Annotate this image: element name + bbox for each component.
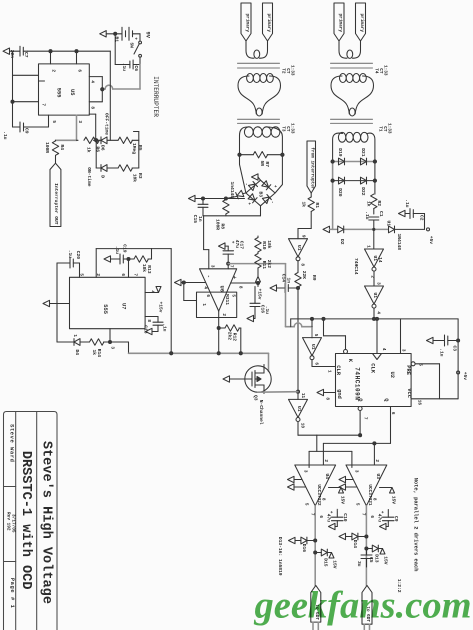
svg-text:3: 3 — [353, 470, 358, 473]
ground — [100, 31, 107, 37]
svg-text:UCC37321: UCC37321 — [367, 484, 372, 505]
svg-text:ON-time: ON-time — [86, 167, 92, 187]
svg-text:+: + — [328, 511, 333, 514]
svg-text:15V: 15V — [391, 496, 397, 505]
svg-text:B1: B1 — [114, 36, 120, 42]
inverter U1 pins 9/8 — [289, 229, 312, 267]
label T2 CT 1:33 — [280, 65, 294, 76]
svg-text:.1u: .1u — [264, 306, 270, 315]
svg-text:gnd: gnd — [336, 389, 342, 399]
svg-text:Vcc: Vcc — [406, 388, 412, 398]
ground C17 — [219, 243, 229, 249]
svg-text:C9: C9 — [393, 516, 399, 522]
svg-text:1: 1 — [365, 245, 370, 248]
resistor R12 — [219, 325, 241, 354]
wire U3 output to GDT — [365, 506, 367, 586]
transformer T4 primary loop — [339, 41, 361, 58]
svg-text:U5: U5 — [69, 89, 75, 95]
capacitor C18 — [142, 317, 167, 334]
svg-text:1:33: 1:33 — [386, 123, 391, 134]
svg-text:D4: D4 — [74, 349, 80, 355]
svg-text:+: + — [379, 511, 384, 514]
svg-text:C1: C1 — [378, 211, 384, 217]
ground Q3 gate — [223, 376, 245, 382]
svg-text:1: 1 — [201, 303, 206, 306]
ground pin4 — [175, 279, 206, 285]
wire CLK down — [376, 317, 379, 353]
svg-text:CLR: CLR — [335, 365, 341, 375]
svg-text:Rev 192: Rev 192 — [5, 512, 10, 531]
svg-text:T2: T2 — [280, 68, 285, 74]
wire T1 left rail — [332, 161, 334, 229]
svg-text:555: 555 — [56, 88, 62, 98]
resistor R5 — [118, 137, 143, 154]
wire left rail down — [95, 140, 97, 168]
svg-text:6: 6 — [313, 362, 318, 365]
svg-text:3: 3 — [375, 282, 380, 285]
svg-text:18k: 18k — [266, 240, 272, 249]
svg-text:.1u: .1u — [439, 348, 445, 357]
feedback box pin1/5/6 — [184, 283, 237, 318]
svg-text:C3: C3 — [452, 345, 458, 351]
flag to GDT right — [362, 585, 372, 624]
wire bottom rail — [330, 228, 389, 231]
svg-text:R7: R7 — [264, 161, 270, 167]
wire pin2rail to LM311 column — [152, 249, 172, 354]
driver U3 UCC37321 — [346, 459, 387, 518]
svg-text:primary: primary — [337, 14, 342, 33]
555 timer U5 — [39, 64, 95, 123]
svg-text:6: 6 — [318, 515, 323, 518]
svg-text:100R: 100R — [215, 219, 221, 230]
svg-text:Q3: Q3 — [253, 395, 259, 401]
label T4 CT 1:33 — [373, 65, 387, 76]
resistor R7 — [238, 152, 284, 168]
svg-text:22K: 22K — [301, 271, 307, 280]
wire J pin down — [400, 319, 402, 354]
svg-text:1k: 1k — [366, 201, 372, 207]
svg-text:T4: T4 — [373, 68, 378, 74]
ground at bridge top — [252, 174, 261, 180]
transformer T2 secondary blob — [238, 73, 281, 116]
diode D15 — [314, 549, 338, 569]
svg-text:CT: CT — [285, 126, 290, 132]
svg-text:N-Channel: N-Channel — [258, 400, 264, 425]
svg-text:C19: C19 — [122, 244, 128, 253]
svg-text:1n: 1n — [197, 216, 203, 222]
ground rail bottom — [323, 226, 330, 232]
svg-text:7: 7 — [132, 273, 137, 276]
svg-text:11: 11 — [300, 393, 305, 399]
svg-text:R2: R2 — [376, 200, 382, 206]
ground U3 inputs — [339, 476, 357, 490]
svg-text:Page # 1: Page # 1 — [9, 578, 15, 609]
svg-text:6: 6 — [76, 69, 81, 72]
svg-text:D14: D14 — [352, 540, 358, 549]
svg-text:5: 5 — [230, 294, 235, 297]
transformer T3 winding outline — [240, 127, 283, 193]
diode D20 — [331, 177, 345, 197]
diode D16 — [289, 537, 317, 552]
svg-text:D6: D6 — [100, 145, 106, 151]
svg-text:4: 4 — [202, 286, 207, 289]
svg-text:100R: 100R — [44, 142, 50, 153]
wire pin7 bus right — [228, 264, 285, 283]
svg-text:2: 2 — [50, 69, 55, 72]
wire D4 to C20 — [57, 263, 72, 342]
diode U1 1N4148 — [386, 220, 425, 250]
power +5v U2 — [457, 371, 469, 380]
transistor Q3 — [245, 365, 271, 425]
svg-text:C20: C20 — [75, 251, 81, 260]
svg-text:9: 9 — [300, 235, 305, 238]
ground — [43, 300, 50, 306]
svg-text:.1u: .1u — [404, 199, 410, 208]
wire R9 node down — [297, 288, 299, 392]
svg-text:Interrupter OUT: Interrupter OUT — [53, 183, 59, 225]
svg-text:1k: 1k — [301, 201, 307, 207]
ground U4 inputs — [288, 476, 306, 490]
capacitor C2 — [399, 199, 425, 229]
ground C10 — [329, 523, 336, 529]
svg-text:R3: R3 — [137, 173, 143, 179]
svg-text:7: 7 — [360, 513, 365, 516]
driver U4 UCC37322 — [295, 459, 336, 518]
svg-text:1: 1 — [326, 370, 331, 373]
transformer T4 primary flags — [334, 3, 344, 41]
svg-text:7: 7 — [362, 417, 367, 420]
svg-text:1:33: 1:33 — [382, 65, 387, 76]
svg-text:R1: R1 — [314, 202, 320, 208]
svg-text:8: 8 — [146, 319, 151, 322]
svg-text:+: + — [230, 241, 235, 244]
svg-text:U1: U1 — [386, 220, 392, 226]
wire off-time rail — [109, 51, 111, 140]
capacitor C15 — [192, 199, 208, 224]
svg-text:10k: 10k — [132, 174, 138, 183]
svg-text:16: 16 — [416, 400, 421, 406]
transformer T3 secondary — [244, 127, 280, 137]
svg-text:+15v: +15v — [158, 301, 164, 312]
flag to GDT left — [311, 585, 321, 622]
svg-text:1n: 1n — [286, 277, 292, 283]
svg-text:5: 5 — [78, 273, 83, 276]
svg-text:Q: Q — [383, 398, 389, 402]
svg-text:14: 14 — [377, 257, 382, 263]
svg-text:C10: C10 — [342, 513, 348, 522]
svg-text:primary: primary — [359, 14, 364, 33]
power +15v pin4 — [145, 287, 164, 313]
capacitor C17 — [223, 240, 245, 269]
svg-text:+5v: +5v — [428, 236, 434, 245]
battery B1 — [106, 27, 150, 42]
svg-text:T3: T3 — [280, 126, 285, 132]
wire pin8 to diode rail — [89, 114, 95, 140]
capacitor C16 — [250, 283, 270, 319]
svg-text:D21: D21 — [360, 148, 366, 157]
svg-text:U1: U1 — [296, 406, 302, 412]
flip-flop U2 74HC109N — [317, 317, 458, 443]
capacitor C1 — [364, 211, 384, 229]
diode D5 — [96, 165, 118, 179]
resistor R1 — [301, 193, 321, 229]
wire battery loop to pin4 with hop — [102, 65, 140, 90]
555 timer U7 box — [70, 273, 155, 349]
svg-text:1n4148: 1n4148 — [229, 181, 235, 198]
svg-text:R12: R12 — [232, 333, 238, 342]
wire diode row1 — [333, 161, 375, 163]
svg-text:4: 4 — [89, 80, 94, 83]
svg-text:3: 3 — [77, 120, 82, 123]
diode D4 — [72, 339, 90, 356]
svg-text:3: 3 — [400, 349, 405, 352]
svg-text:47u: 47u — [377, 514, 383, 523]
op-amp U6 LM311 — [200, 265, 243, 317]
svg-text:D22: D22 — [360, 187, 366, 196]
capacitor C9 — [377, 510, 400, 527]
power 15V U4 — [329, 488, 346, 505]
svg-text:K: K — [347, 359, 353, 363]
svg-text:LM311: LM311 — [224, 291, 230, 305]
svg-text:R9: R9 — [311, 275, 317, 281]
svg-text:U1: U1 — [310, 344, 316, 350]
svg-text:D19: D19 — [337, 148, 343, 157]
svg-text:U7: U7 — [121, 303, 127, 309]
svg-text:U4: U4 — [324, 473, 330, 479]
svg-text:D13-16: 1n5819: D13-16: 1n5819 — [277, 537, 283, 576]
title block — [4, 412, 58, 630]
svg-text:6: 6 — [205, 294, 210, 297]
wire pin8 to +15v — [231, 282, 259, 284]
svg-text:Note, parallel 2 drivers each: Note, parallel 2 drivers each — [413, 478, 419, 572]
resistor R4 — [44, 140, 65, 163]
svg-text:U3: U3 — [375, 473, 381, 479]
svg-text:5: 5 — [303, 503, 308, 506]
wire U4 output to GDT — [315, 506, 337, 586]
resistor R8 — [215, 200, 229, 231]
svg-text:2: 2 — [323, 459, 328, 462]
node pin7 — [227, 262, 230, 265]
diode 1n4148 — [226, 181, 246, 198]
svg-text:74HC109N: 74HC109N — [353, 367, 360, 400]
svg-text:15V: 15V — [383, 556, 389, 565]
label T3 CT 1:33 — [280, 123, 294, 134]
svg-text:.1u: .1u — [114, 246, 120, 255]
svg-text:+: + — [246, 202, 251, 205]
inverter U1 hex a — [365, 229, 384, 278]
svg-text:from interrupter: from interrupter — [309, 147, 314, 190]
svg-text:+: + — [231, 276, 237, 279]
wire U1-10 down — [298, 422, 317, 436]
node bus joins — [170, 352, 243, 355]
svg-text:7: 7 — [40, 103, 45, 106]
svg-text:C7: C7 — [23, 52, 29, 58]
resistor R2 — [366, 194, 383, 214]
diode D19 — [331, 148, 345, 165]
svg-text:8: 8 — [299, 263, 304, 266]
svg-text:+5v: +5v — [462, 372, 468, 381]
svg-text:CT: CT — [285, 68, 290, 74]
ground — [146, 328, 153, 334]
flag primary T2b — [263, 3, 273, 41]
power +5v terminal — [427, 228, 435, 244]
svg-text:3: 3 — [109, 346, 114, 349]
resistor R6 — [77, 137, 101, 153]
resistor R13 — [129, 256, 153, 274]
capacitor C5 — [356, 549, 374, 568]
flag Interrupter OUT — [50, 163, 61, 226]
capacitor C20 — [57, 250, 81, 278]
capacitor C9 — [2, 115, 48, 140]
svg-text:D16: D16 — [301, 544, 307, 553]
svg-text:6: 6 — [390, 412, 395, 415]
svg-text:C6: C6 — [133, 65, 139, 71]
transformer T3 core — [238, 119, 280, 123]
svg-text:INTERRUPTER: INTERRUPTER — [152, 76, 159, 117]
svg-text:Steve's High Voltage: Steve's High Voltage — [38, 441, 53, 604]
svg-text:2: 2 — [95, 273, 100, 276]
capacitor C14 — [270, 274, 300, 293]
svg-text:.1u: .1u — [162, 323, 168, 332]
resistor R9 — [295, 261, 317, 288]
svg-text:PRE: PRE — [405, 365, 411, 375]
wire U1-6 to U2 pin1 — [312, 360, 336, 367]
flag from interrupter — [307, 141, 316, 193]
svg-text:+15v: +15v — [257, 288, 263, 299]
wire clock rail — [291, 308, 458, 399]
wire C15 to pin3 — [204, 216, 209, 269]
svg-text:2k2: 2k2 — [266, 260, 272, 269]
wire diode row2 — [333, 180, 375, 182]
resistor R11 — [255, 254, 272, 277]
wire top rail to 555 — [28, 50, 111, 64]
switch SW — [129, 34, 142, 57]
svg-text:T1: T1 — [377, 126, 382, 132]
svg-text:3: 3 — [302, 470, 307, 473]
transformer T1 core — [331, 119, 373, 123]
ground — [3, 48, 10, 54]
svg-text:15V: 15V — [332, 560, 338, 569]
wire Q to drivers — [309, 434, 362, 468]
wire pin1 — [50, 303, 70, 305]
ground C9 — [380, 523, 387, 529]
svg-text:geekfans.com: geekfans.com — [254, 585, 472, 627]
capacitor C19 — [111, 244, 131, 277]
svg-text:15V: 15V — [340, 496, 346, 505]
svg-text:1: 1 — [72, 334, 77, 337]
wire right rail — [134, 132, 139, 169]
wire bottom rail — [203, 206, 261, 216]
wire Q3 source to R9 node — [258, 391, 298, 394]
svg-text:2: 2 — [374, 459, 379, 462]
resistor R14 — [90, 339, 111, 357]
svg-text:C5: C5 — [368, 557, 374, 563]
svg-text:U2: U2 — [389, 372, 395, 378]
svg-text:555: 555 — [102, 304, 108, 314]
svg-text:3: 3 — [209, 265, 214, 268]
svg-text:9V: 9V — [145, 32, 151, 39]
ground C16 — [247, 315, 254, 321]
power +15v node — [256, 277, 263, 300]
svg-text:primary: primary — [244, 14, 249, 33]
svg-text:.1u: .1u — [364, 211, 370, 220]
svg-text:2: 2 — [221, 313, 226, 316]
flag primary T4b — [356, 3, 366, 41]
svg-text:1:33: 1:33 — [289, 123, 294, 134]
svg-text:7: 7 — [309, 513, 314, 516]
svg-text:DRSSTC-1 with OCD: DRSSTC-1 with OCD — [18, 451, 33, 590]
svg-text:6: 6 — [369, 515, 374, 518]
svg-text:+: + — [272, 185, 277, 188]
flag primary T2a — [241, 3, 251, 41]
wire Qbar to drivers — [323, 442, 390, 465]
inverter U1 pins 11/10 — [289, 390, 308, 428]
resistor R10 — [255, 236, 272, 254]
svg-text:4: 4 — [381, 348, 386, 351]
svg-text:CT: CT — [382, 126, 387, 132]
wire 555 pin3 down — [56, 115, 77, 140]
svg-text:D13: D13 — [374, 554, 380, 563]
svg-text:C9: C9 — [24, 128, 30, 134]
svg-text:U1: U1 — [296, 245, 302, 251]
wire gray bus horizontal — [129, 353, 269, 371]
svg-text:10: 10 — [299, 423, 304, 429]
svg-text:5: 5 — [51, 120, 56, 123]
svg-text:R4: R4 — [59, 144, 65, 150]
svg-text:.1u: .1u — [121, 63, 127, 72]
capacitor C6 — [115, 34, 140, 71]
svg-text:5: 5 — [354, 503, 359, 506]
svg-text:CLK: CLK — [369, 363, 375, 373]
power 15V U3 — [380, 488, 397, 505]
ground — [104, 256, 111, 262]
node C15/R8 — [195, 197, 245, 200]
svg-text:74HC14: 74HC14 — [353, 258, 359, 275]
svg-text:8: 8 — [320, 498, 325, 501]
svg-text:3/17/05: 3/17/05 — [10, 514, 15, 533]
transformer T4 secondary blob — [331, 73, 374, 116]
svg-text:B3: B3 — [258, 191, 264, 197]
resistor R3 — [118, 165, 143, 182]
svg-text:3u: 3u — [356, 561, 362, 567]
svg-text:UCC37322: UCC37322 — [316, 484, 321, 505]
wire left vertical — [11, 51, 45, 127]
svg-text:5: 5 — [313, 334, 318, 337]
diode D2 — [338, 226, 345, 245]
svg-text:1N4148: 1N4148 — [396, 233, 402, 250]
wire gray comparator to U1 pin5 with hop — [286, 283, 313, 338]
svg-text:C2: C2 — [419, 215, 425, 221]
svg-text:.1u: .1u — [2, 131, 8, 140]
svg-text:8: 8 — [371, 498, 376, 501]
diode D21 — [360, 148, 376, 165]
svg-text:-: - — [206, 275, 212, 278]
wire GDT leads — [313, 622, 370, 630]
svg-text:D2: D2 — [339, 239, 345, 245]
wire pin3 out — [109, 329, 129, 354]
svg-text:.1u: .1u — [67, 250, 73, 259]
svg-text:Steve Ward: Steve Ward — [9, 424, 15, 462]
wire pin2 top loop — [96, 249, 151, 278]
transformer T1 secondary — [333, 132, 375, 161]
svg-text:CT: CT — [378, 68, 383, 74]
svg-text:1:33: 1:33 — [289, 65, 294, 76]
bridge rectifier B3 — [243, 180, 277, 206]
svg-text:8: 8 — [324, 397, 329, 400]
svg-text:SW: SW — [129, 42, 135, 48]
svg-text:D15: D15 — [323, 558, 329, 567]
svg-text:C17: C17 — [239, 241, 245, 250]
